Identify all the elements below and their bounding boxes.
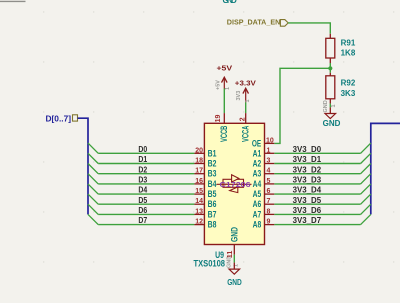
bus D[0..7] (left) (78, 118, 89, 214)
svg-text:20: 20 (195, 147, 203, 154)
wire pin11 to GND (233, 255, 235, 263)
wire junction to OE (274, 68, 330, 143)
svg-text:1: 1 (245, 99, 251, 102)
svg-text:B8: B8 (208, 220, 217, 230)
svg-text:9: 9 (267, 219, 271, 226)
svg-text:12: 12 (195, 219, 203, 226)
svg-text:GND: GND (227, 278, 242, 287)
svg-text:A4: A4 (253, 179, 262, 189)
svg-text:B2: B2 (208, 159, 217, 169)
reference U9 (215, 250, 224, 260)
svg-text:D1: D1 (138, 155, 147, 164)
pin numbers right (OE + A side) (266, 137, 274, 225)
svg-text:5: 5 (267, 178, 271, 185)
ground (below U9) (227, 256, 242, 287)
svg-text:3: 3 (267, 158, 271, 165)
svg-text:A5: A5 (253, 189, 262, 199)
svg-text:+3.3V: +3.3V (235, 79, 257, 88)
resistor R92 (326, 73, 356, 104)
svg-text:1: 1 (331, 104, 337, 107)
resistor R91 (326, 34, 356, 63)
svg-text:19: 19 (215, 115, 222, 123)
svg-text:+5V: +5V (217, 63, 234, 72)
svg-text:A3: A3 (253, 169, 262, 179)
svg-text:GND: GND (229, 227, 239, 242)
svg-text:B5: B5 (208, 189, 217, 199)
svg-text:16: 16 (195, 178, 203, 185)
pins B1-B8 (left side lines) (194, 153, 204, 224)
svg-text:3K3: 3K3 (341, 89, 356, 98)
wire R91 to R92 (329, 63, 331, 73)
grid dots (43, 11, 394, 262)
svg-text:+5V: +5V (216, 80, 222, 90)
svg-text:A8: A8 (253, 220, 262, 230)
svg-text:6: 6 (267, 188, 271, 195)
svg-text:8: 8 (267, 208, 271, 215)
svg-text:D0: D0 (138, 145, 147, 154)
svg-text:D7: D7 (138, 216, 147, 225)
pin numbers left (B side) (195, 147, 203, 225)
svg-text:OE: OE (252, 138, 261, 148)
pin name VCCA (241, 125, 251, 142)
svg-text:1: 1 (267, 147, 271, 154)
svg-text:A1: A1 (253, 148, 262, 158)
svg-text:3V3_D3: 3V3_D3 (293, 176, 322, 185)
svg-text:3V3_D7: 3V3_D7 (293, 216, 322, 225)
sheet pin square (73, 115, 78, 121)
svg-text:A6: A6 (253, 199, 262, 209)
value TXS0108 (194, 258, 226, 268)
U9 internal bidirectional icon (217, 175, 252, 193)
svg-text:3V3_D2: 3V3_D2 (293, 165, 322, 174)
svg-text:11: 11 (227, 251, 234, 259)
net labels 3V3_D0-3V3_D7 (293, 145, 322, 225)
op-amp U9 body (204, 123, 264, 244)
wire (clipped, top-left) (0, 0, 26, 2)
junction node (328, 66, 332, 70)
svg-text:D4: D4 (138, 186, 147, 195)
svg-text:A2: A2 (253, 159, 262, 169)
svg-text:10: 10 (266, 137, 274, 144)
pin VCCA line (245, 113, 247, 123)
svg-text:D3: D3 (138, 176, 147, 185)
svg-text:4: 4 (267, 168, 271, 175)
svg-text:VCCA: VCCA (241, 125, 251, 142)
bus label D[0..7] (46, 115, 72, 124)
svg-text:B6: B6 (208, 199, 217, 209)
pin number 19 (215, 115, 222, 123)
svg-text:2: 2 (240, 117, 247, 121)
wire R92 to GND (329, 104, 331, 108)
wire +5V to VCCB (223, 89, 225, 114)
bus entries right (361, 143, 371, 225)
wires D0-D7 (left) (98, 153, 194, 224)
ground (below R92) (323, 100, 341, 128)
svg-text:7: 7 (267, 198, 271, 205)
svg-text:D6: D6 (138, 206, 147, 215)
bus 3V3 (right) (371, 123, 400, 214)
svg-text:A7: A7 (253, 209, 262, 219)
svg-text:18: 18 (195, 158, 203, 165)
svg-text:GND: GND (323, 119, 341, 128)
svg-text:15: 15 (195, 188, 203, 195)
hierarchical label DISP_DATA_EN (227, 18, 288, 27)
svg-text:14: 14 (195, 198, 203, 205)
svg-text:17: 17 (195, 168, 203, 175)
power +5V (216, 63, 234, 90)
svg-text:D2: D2 (138, 165, 147, 174)
svg-text:B7: B7 (208, 209, 217, 219)
pin GND line (11) (233, 245, 235, 255)
wire DISP_DATA_EN to R91 (288, 23, 330, 34)
svg-text:D5: D5 (138, 196, 147, 205)
power +3.3V (235, 79, 257, 103)
wire +3.3V to VCCA (245, 102, 247, 113)
svg-text:VCCB: VCCB (219, 125, 229, 142)
svg-text:GND: GND (323, 100, 329, 112)
pin number 2 (240, 117, 247, 121)
svg-text:B1: B1 (208, 148, 217, 158)
svg-text:3V3_D1: 3V3_D1 (293, 155, 322, 164)
svg-text:3V3_D6: 3V3_D6 (293, 206, 322, 215)
net labels D0-D7 (138, 145, 147, 225)
svg-text:1: 1 (225, 87, 231, 90)
svg-text:1K8: 1K8 (341, 49, 356, 58)
svg-text:D[0..7]: D[0..7] (46, 115, 72, 124)
svg-text:3V3_D5: 3V3_D5 (293, 196, 322, 205)
pins OE A1-A8 (right side lines) (265, 143, 275, 224)
svg-text:B4: B4 (208, 179, 217, 189)
pin name GND (229, 227, 239, 242)
svg-text:3V3_D0: 3V3_D0 (293, 145, 322, 154)
svg-text:R92: R92 (341, 79, 356, 88)
svg-text:C17206: C17206 (220, 180, 251, 189)
svg-text:DISP_DATA_EN: DISP_DATA_EN (227, 18, 280, 27)
pin names B1-B8 (208, 148, 217, 229)
svg-text:B3: B3 (208, 169, 217, 179)
svg-text:R91: R91 (341, 39, 356, 48)
pin number 11 (227, 251, 234, 259)
svg-text:GND: GND (223, 0, 238, 5)
pin names OE A1-A8 (252, 138, 262, 229)
svg-text:13: 13 (195, 208, 203, 215)
bus entries left (88, 143, 98, 225)
node GND (top, clipped) (223, 0, 238, 5)
pin name VCCB (219, 125, 229, 142)
svg-text:3V3_D4: 3V3_D4 (293, 186, 322, 195)
wires A1-A8 to right bus (274, 153, 360, 224)
svg-text:3V3: 3V3 (236, 91, 242, 101)
pin VCCB line (223, 113, 225, 123)
svg-text:TXS0108: TXS0108 (194, 258, 226, 268)
